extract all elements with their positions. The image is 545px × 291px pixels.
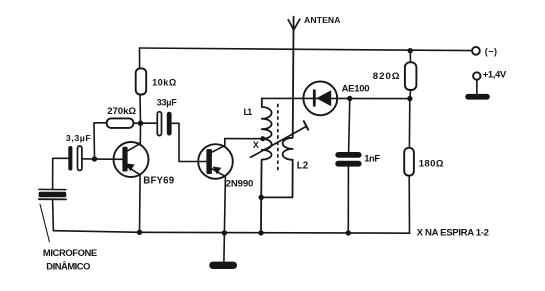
wire 820Ω top lead from supply rail (409, 51, 411, 63)
svg-text:ANTENA: ANTENA (304, 15, 341, 25)
svg-text:270kΩ: 270kΩ (107, 106, 136, 117)
wire 1nF top lead from node J7 (349, 99, 350, 153)
transistor Q1 emitter arrow (PNP, points to base) (126, 163, 135, 171)
svg-text:+1,4V: +1,4V (483, 69, 507, 80)
svg-text:BFY69: BFY69 (143, 176, 174, 187)
wire Q1 collector up to node J1 (128, 123, 141, 151)
wire 33µF right lead down to Q2 base (172, 123, 207, 161)
svg-text:3,3µF: 3,3µF (66, 133, 91, 143)
inductor L1 winding with spine and tap (261, 98, 272, 233)
microphone symbol bottom thin plate (39, 198, 66, 200)
wire through AE100 from tank to node J7 and on to 820Ω node (313, 97, 410, 99)
svg-text:10kΩ: 10kΩ (152, 78, 176, 88)
microphone symbol thick bar (39, 192, 67, 197)
wire bottom ground rail (54, 231, 410, 234)
wire Q2 collector up to tap wire (212, 139, 225, 153)
wire ground stub below rail (223, 233, 226, 262)
wire corner from rail down to 10k resistor (139, 48, 141, 68)
wire tap from Q2 collector to node X (225, 138, 261, 140)
wire Q2 emitter down to ground rail (212, 169, 226, 233)
wire Q1 emitter down to ground rail (128, 167, 141, 233)
node J1 junction dot (138, 121, 143, 126)
wire tank top from L1 to AE100 (262, 97, 314, 99)
trimmer arrow diagonal through L1/L2 (251, 126, 307, 157)
resistor 10kΩ body (136, 68, 147, 94)
capacitor 3,3µF positive plate (hollow) (78, 146, 82, 171)
capacitor 3,3µF negative plate (solid) (68, 146, 72, 171)
AE100 cathode bar (313, 89, 316, 107)
wire 180Ω bottom lead to ground rail corner (408, 176, 410, 234)
node J2 junction dot (92, 156, 97, 161)
resistor 270kΩ body (107, 118, 134, 128)
wire 10k bottom lead to node J1 (139, 95, 142, 124)
resistor 820Ω body (405, 62, 417, 90)
transistor U1 AE100 circle (303, 82, 337, 116)
ferrite core dashed line (277, 104, 279, 173)
svg-text:L2: L2 (297, 160, 308, 171)
transistor Q1 base bar (122, 147, 127, 172)
resistor 180Ω body (404, 148, 414, 176)
wire 820Ω bottom lead to node J10 (409, 90, 412, 99)
svg-text:820Ω: 820Ω (373, 71, 400, 82)
wire node J10 down to 180Ω (408, 99, 410, 148)
wire 270k left lead down to node J2 (94, 123, 107, 159)
wire 3,3µF left lead and corner down to microphone (53, 158, 69, 188)
AE100 triangle (points left) (316, 90, 331, 106)
antenna lead down through rail into inductor L2 (261, 17, 293, 198)
svg-text:L1: L1 (244, 107, 253, 117)
svg-text:(−): (−) (485, 46, 497, 56)
wire 270k right lead to node J1 (133, 122, 140, 124)
svg-text:180Ω: 180Ω (419, 158, 444, 169)
trimmer arrow end tick (304, 121, 308, 130)
svg-text:MICROFONE: MICROFONE (43, 247, 97, 258)
svg-text:X: X (253, 140, 259, 150)
terminal +1,4V circle (473, 72, 480, 79)
microphone symbol top thin plate (39, 188, 66, 190)
svg-text:AE100: AE100 (342, 83, 370, 94)
svg-text:DINÂMICO: DINÂMICO (46, 261, 90, 272)
+1,4V terminal bar (465, 94, 490, 100)
capacitor 33µF positive plate (hollow) (157, 112, 161, 136)
node J6 junction dot (258, 230, 263, 235)
svg-text:2N990: 2N990 (226, 179, 254, 190)
wire top supply rail (140, 48, 472, 51)
terminal (-) circle (472, 47, 480, 55)
ground symbol bar (209, 262, 237, 269)
label pointer line to microphone (40, 204, 49, 242)
node J10 junction dot (407, 96, 412, 101)
svg-text:X NA ESPIRA 1-2: X NA ESPIRA 1-2 (417, 228, 489, 239)
wire node J1 to 33uF left plate (141, 122, 158, 124)
capacitor 33µF negative plate (solid) (167, 112, 172, 136)
transistor Q2 2N990 circle (198, 144, 233, 179)
node J5 junction dot (259, 195, 264, 200)
transistor Q2 emitter arrow (points to base) (213, 167, 222, 175)
node J7 junction dot (347, 96, 352, 101)
node J3 junction dot (137, 230, 142, 235)
svg-text:33µF: 33µF (157, 97, 177, 107)
wire 1nF bottom lead to ground rail (347, 167, 349, 233)
node J4 junction dot (222, 230, 227, 235)
node J8 junction dot (346, 230, 351, 235)
wire 3,3µF right lead to node J2 (82, 158, 95, 160)
antenna symbol V arms (288, 19, 300, 30)
wire Q1 base lead from node J2 (95, 158, 123, 160)
capacitor 1nF bottom plate (335, 161, 361, 167)
node X tap dot (260, 136, 265, 141)
node J9 junction dot (408, 48, 413, 53)
transistor Q1 BFY69 circle (114, 142, 149, 177)
capacitor 1nF top plate (335, 152, 361, 158)
svg-text:1nF: 1nF (364, 154, 380, 165)
wire +1,4V lead down to bar (476, 80, 478, 95)
transistor Q2 base bar (206, 149, 212, 174)
wire microphone bottom lead to ground rail (52, 200, 55, 231)
